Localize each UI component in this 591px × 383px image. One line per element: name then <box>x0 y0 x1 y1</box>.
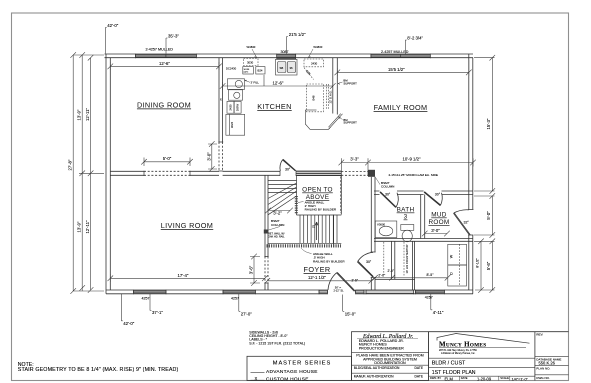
wall kitchen-family <box>333 58 338 115</box>
stair winder diagonals <box>268 183 297 215</box>
cabinet DISW <box>234 101 241 113</box>
svg-text:3'-0": 3'-0" <box>431 228 440 233</box>
cabinet 2430 dashed upper right <box>304 59 324 67</box>
svg-text:PLAN NO.: PLAN NO. <box>536 366 550 370</box>
svg-text:30°: 30° <box>285 167 291 171</box>
muncy homes logo roof <box>437 334 530 344</box>
stairs <box>268 175 341 243</box>
svg-text:12'-6": 12'-6" <box>273 81 284 86</box>
svg-text:7R: 7R <box>313 225 316 228</box>
svg-text:ELM: ELM <box>445 376 454 381</box>
right column rows <box>535 356 569 375</box>
railing angle wall dotted bottom <box>267 244 342 247</box>
stair up arrow <box>315 222 318 240</box>
svg-text:17'-4": 17'-4" <box>178 273 189 278</box>
svg-text:5'-6": 5'-6" <box>486 261 491 270</box>
svg-text:W: W <box>450 254 454 258</box>
svg-text:37'-1": 37'-1" <box>152 310 163 315</box>
svg-text:42'-0": 42'-0" <box>123 321 134 326</box>
wall kitchen-dining <box>219 58 223 142</box>
window 4257 laundry <box>415 290 444 293</box>
door front entry arc <box>328 273 337 290</box>
svg-text:30°: 30° <box>385 192 391 196</box>
dim 3-3 opening <box>339 158 371 171</box>
svg-text:2'-0": 2'-0" <box>378 274 386 278</box>
svg-text:2430: 2430 <box>311 62 318 66</box>
svg-text:LIVING ROOM: LIVING ROOM <box>161 221 214 230</box>
dim 35-3 leader <box>166 38 168 54</box>
laundry doors dashed <box>427 239 447 241</box>
wall oven circle 1 <box>235 80 242 87</box>
divider <box>352 364 429 366</box>
vanity basin <box>379 226 393 236</box>
basement column at middle wall <box>368 170 375 177</box>
svg-text:3030: 3030 <box>247 61 254 65</box>
svg-text:3'-3": 3'-3" <box>350 157 359 162</box>
svg-text:8'-5": 8'-5" <box>427 273 435 277</box>
svg-text:12'-1 1/2": 12'-1 1/2" <box>308 275 327 280</box>
divider logo <box>429 357 535 359</box>
svg-text:DISW: DISW <box>236 103 240 111</box>
advantage house line <box>251 372 265 374</box>
window 2-4257 mulled family <box>371 55 430 58</box>
exterior wall bottom <box>106 290 473 294</box>
cabinet box 2 <box>229 90 243 100</box>
svg-text:2430: 2430 <box>229 104 233 111</box>
svg-text:SB: SB <box>280 66 284 70</box>
svg-text:4257: 4257 <box>425 296 433 300</box>
svg-text:2-12" SL: 2-12" SL <box>334 288 345 292</box>
door mud leaf <box>424 192 441 206</box>
svg-text:3624: 3624 <box>230 121 234 128</box>
sink window sill bar <box>277 58 296 60</box>
svg-text:MUNCY HOMES: MUNCY HOMES <box>439 340 486 348</box>
sidelight left of front door <box>319 290 328 293</box>
dim 3-0 mud <box>422 231 450 237</box>
svg-text:5'-0": 5'-0" <box>163 156 172 161</box>
title block signature box <box>352 332 429 381</box>
wall middle right of door <box>296 171 341 175</box>
window jamb ticks <box>134 54 445 295</box>
peninsula diagonal inner <box>329 127 331 129</box>
svg-text:PRODUCTION ENGINEER: PRODUCTION ENGINEER <box>359 346 404 350</box>
door foyer-corridor leaf <box>357 261 373 277</box>
dim 12-1 foyer line <box>265 278 375 284</box>
svg-text:W4830: W4830 <box>247 45 256 49</box>
svg-text:DWG NO.: DWG NO. <box>536 376 550 380</box>
svg-text:DATE: DATE <box>415 375 424 379</box>
svg-text:12'-11": 12'-11" <box>85 108 90 121</box>
dim 10-9 line <box>369 158 476 166</box>
refrigerator 3624 <box>226 114 245 135</box>
svg-text:DATE: DATE <box>461 376 468 380</box>
opening jamb caps <box>144 142 473 283</box>
stair winder treads <box>268 181 297 193</box>
open-to-above right boundary dashed <box>339 177 341 214</box>
window 4257 living left <box>134 290 167 293</box>
svg-text:32°: 32° <box>464 220 470 224</box>
svg-text:16' LIN COUNTERTOP: 16' LIN COUNTERTOP <box>405 244 409 273</box>
cabinet 2430 tall <box>227 101 234 113</box>
svg-text:12' O.H.G.: 12' O.H.G. <box>329 90 333 103</box>
svg-text:42'-0": 42'-0" <box>107 23 118 28</box>
sink unit outline <box>276 59 298 75</box>
svg-text:FOYER: FOYER <box>304 265 331 274</box>
door rear 32 leaf <box>453 213 470 235</box>
refrigerator inner line <box>229 114 231 135</box>
svg-text:5'-0": 5'-0" <box>486 211 491 220</box>
svg-text:RAILING BY BUILDER: RAILING BY BUILDER <box>313 259 345 263</box>
wall middle 3-3 opening dashed <box>341 172 368 176</box>
basement column dot at ret wall <box>264 230 268 234</box>
svg-text:STAIR GEOMETRY TO BE 8 1/4" (M: STAIR GEOMETRY TO BE 8 1/4" (MAX. RISE) … <box>18 367 179 373</box>
svg-text:30°: 30° <box>366 260 372 264</box>
svg-text:COLUMN: COLUMN <box>271 223 284 227</box>
svg-text:1ST FLOOR PLAN: 1ST FLOOR PLAN <box>432 370 476 376</box>
svg-text:SCALE: SCALE <box>500 376 509 380</box>
svg-text:DC2430: DC2430 <box>226 66 237 70</box>
svg-text:DOCUMENTATION: DOCUMENTATION <box>374 361 406 365</box>
exterior wall right upper <box>469 54 473 210</box>
svg-text:8'-1/2": 8'-1/2" <box>476 257 480 267</box>
svg-text:ADVANTAGE HOUSE: ADVANTAGE HOUSE <box>266 369 318 375</box>
cabinet SB36 base <box>243 67 254 74</box>
svg-text:DWN. BY: DWN. BY <box>430 376 441 380</box>
cabinet B24 base <box>256 67 265 74</box>
svg-text:3: 3 <box>404 214 408 221</box>
island overhang dashed line <box>326 84 328 110</box>
svg-text:550.K.26: 550.K.26 <box>539 360 556 365</box>
custom house line with x <box>251 379 265 381</box>
peninsula top edge <box>305 109 316 111</box>
dim 21-5 leader <box>287 37 289 54</box>
dim 5-0 right line <box>474 193 495 238</box>
svg-text:1-20-09: 1-20-09 <box>477 376 492 381</box>
wall middle 5-0 opening dashed <box>144 171 190 175</box>
dim 3-6 foyer vertical <box>250 254 260 286</box>
svg-text:DATE: DATE <box>415 366 424 370</box>
svg-text:2-4257 MULLED: 2-4257 MULLED <box>381 50 409 54</box>
divider <box>352 351 429 353</box>
wall living-foyer bottom stub <box>265 283 268 290</box>
dim 17-4 bottom line <box>108 274 268 282</box>
svg-text:3' FILL: 3' FILL <box>251 81 260 85</box>
window 4257 living right <box>223 290 255 293</box>
washer dryer inner dashed line <box>459 244 461 286</box>
dryer box <box>448 265 467 286</box>
wall stairwell left / living-foyer <box>265 175 268 256</box>
svg-text:SUPPORT: SUPPORT <box>343 121 357 125</box>
svg-text:4257: 4257 <box>231 296 239 300</box>
wall stairwell right stub <box>334 175 342 247</box>
svg-text:DINING ROOM: DINING ROOM <box>137 101 191 110</box>
svg-text:15'-0": 15'-0" <box>345 312 356 317</box>
door dining-stairs leaf <box>282 159 296 171</box>
svg-text:REV.: REV. <box>536 332 543 336</box>
svg-text:MASTER SERIES: MASTER SERIES <box>273 360 332 366</box>
svg-text:2'-0": 2'-0" <box>388 269 395 273</box>
svg-text:SUPPORT: SUPPORT <box>343 81 357 85</box>
svg-text:OAK HD. RAIL: OAK HD. RAIL <box>268 235 285 238</box>
dim 42-0 top leader <box>105 28 107 54</box>
stair run treads <box>300 215 337 243</box>
door dining-stairs arc <box>280 160 283 172</box>
svg-text:35'-3": 35'-3" <box>168 34 179 39</box>
svg-text:A Division of Muncy Homes, Inc: A Division of Muncy Homes, Inc. <box>441 352 476 355</box>
kitchen fixtures <box>226 58 343 136</box>
wall bath left / foyer right <box>371 177 375 290</box>
svg-text:21'5 1/2": 21'5 1/2" <box>289 32 306 37</box>
door mud arc <box>440 193 442 206</box>
peninsula outline <box>305 110 342 129</box>
svg-text:S.F. - 1215 1ST FLR. (2312 TOT: S.F. - 1215 1ST FLR. (2312 TOTAL) <box>249 341 305 345</box>
corridor counter dashed lines <box>384 242 404 276</box>
svg-text:COLUMN: COLUMN <box>381 185 394 189</box>
dim extension at middle wall left <box>79 172 104 174</box>
wall kitchen-dining cased opening dashed <box>219 142 223 171</box>
door rear 32 arc <box>454 210 469 213</box>
dim 8-2 leader <box>405 40 407 55</box>
dim 3-0 kitchen opening vertical <box>208 141 217 172</box>
svg-text:3087: 3087 <box>281 50 289 54</box>
railing angle wall dotted vertical <box>295 196 298 214</box>
leader 15-0 <box>343 295 345 312</box>
svg-text:MANUF. AUTHORIZATION: MANUF. AUTHORIZATION <box>354 375 394 379</box>
svg-text:MUD: MUD <box>431 212 447 219</box>
svg-text:D: D <box>450 272 454 275</box>
svg-text:(42"): (42") <box>244 71 249 73</box>
leader 27-0 <box>239 294 241 311</box>
svg-text:12'-6": 12'-6" <box>159 61 170 66</box>
svg-text:27'-8": 27'-8" <box>68 159 73 170</box>
dim 12-11 lower line <box>88 173 94 292</box>
title block center borders <box>429 332 569 381</box>
svg-text:3'-0": 3'-0" <box>207 152 212 161</box>
svg-text:12'-11": 12'-11" <box>85 220 90 233</box>
svg-text:BATH: BATH <box>397 207 415 214</box>
wall bath-mud top: segments <box>374 191 473 195</box>
dim dining 12-6 line <box>108 62 222 70</box>
svg-text:4'-11": 4'-11" <box>433 310 444 315</box>
island B48 dashed <box>307 84 324 112</box>
svg-text:13'-9": 13'-9" <box>77 109 82 120</box>
window 3087 kitchen <box>277 55 296 58</box>
bath fixtures <box>375 221 466 286</box>
svg-text:1/4"=1'-0": 1/4"=1'-0" <box>512 377 529 381</box>
svg-text:3'-6": 3'-6" <box>248 265 253 274</box>
wall middle dining-living solid left <box>110 171 144 175</box>
dim 13-9 upper line <box>79 52 85 176</box>
svg-text:ROOM: ROOM <box>428 219 449 226</box>
sidelight right of front door <box>356 290 365 293</box>
svg-text:FAMILY ROOM: FAMILY ROOM <box>374 103 428 112</box>
cabinet DC2430 corner box <box>228 79 245 90</box>
dim kitchen 12-6 line <box>220 82 336 90</box>
svg-text:BLDR / CUST: BLDR / CUST <box>432 361 466 367</box>
dim 8-0 right inner line <box>478 239 484 293</box>
wall bath-mud divider <box>421 195 425 239</box>
dim 13-9 lower line <box>79 173 85 291</box>
dim 5-6 right line <box>474 239 495 293</box>
dimension lines <box>70 28 495 321</box>
svg-text:W4830: W4830 <box>313 45 322 49</box>
door foyer-corridor arc <box>358 252 373 261</box>
dim 5-0 dining opening <box>141 158 193 167</box>
svg-text:2-4257 MULLED: 2-4257 MULLED <box>146 48 174 52</box>
wall corridor closet <box>392 241 415 290</box>
toilet bowl <box>402 230 412 242</box>
wall middle solid mid <box>190 171 280 175</box>
svg-text:BLDG/SEAL AUTHORIZATION: BLDG/SEAL AUTHORIZATION <box>354 366 400 370</box>
corridor counter line <box>375 279 415 281</box>
dim 15-3 right line <box>474 55 495 194</box>
svg-text:15'5 1/2": 15'5 1/2" <box>388 67 405 72</box>
svg-text:KITCHEN: KITCHEN <box>257 102 291 111</box>
cabinet 3030 dashed upper <box>244 59 259 66</box>
svg-text:10'-9 1/2": 10'-9 1/2" <box>402 157 421 162</box>
svg-text:B24: B24 <box>258 69 263 73</box>
cabinet corner B36 dashed diagonal <box>304 68 314 80</box>
stair winder right edge <box>296 175 298 215</box>
door bath arc <box>396 193 398 208</box>
stair run rails <box>268 215 341 243</box>
leader 4-11 <box>431 294 433 310</box>
wall band below corridor <box>366 290 414 293</box>
svg-text:B48: B48 <box>312 95 316 100</box>
dim 12-11 upper line <box>88 55 94 176</box>
exterior wall top <box>105 54 474 58</box>
vanity V3600 <box>375 221 397 238</box>
wall laundry top / bath bottom <box>374 239 473 242</box>
sink bowl left <box>278 62 286 73</box>
svg-text:2-15'x11.25" MICRO-LAM EA. SID: 2-15'x11.25" MICRO-LAM EA. SIDE <box>389 173 438 177</box>
toilet tank <box>401 225 414 231</box>
svg-text:8'-2 3/4": 8'-2 3/4" <box>407 36 423 41</box>
svg-text:4257: 4257 <box>142 296 150 300</box>
exterior wall left <box>106 54 110 294</box>
sink bowl right <box>287 62 295 73</box>
window 2-4257 mulled dining <box>135 55 196 58</box>
counter front edge kitchen top run <box>263 75 265 86</box>
dim 27-8 left line <box>70 52 104 294</box>
dim 3-2 winder <box>265 208 293 214</box>
door bath leaf <box>380 192 396 208</box>
svg-text:3'-2": 3'-2" <box>273 210 282 215</box>
wall oven circle 2 <box>234 92 240 98</box>
leader 42-0 bottom <box>121 294 123 321</box>
master series box <box>247 356 352 380</box>
divider <box>352 372 429 374</box>
svg-text:13'-9": 13'-9" <box>77 221 82 232</box>
svg-text:36: 36 <box>290 66 294 70</box>
svg-text:RAILING BY BUILDER: RAILING BY BUILDER <box>305 208 337 212</box>
svg-text:CUSTOM HOUSE: CUSTOM HOUSE <box>266 376 309 382</box>
svg-text:2'-6": 2'-6" <box>352 279 359 283</box>
svg-text:15'-3": 15'-3" <box>486 118 491 129</box>
door front entry leaf <box>337 272 356 291</box>
wall living-foyer dashed opening <box>265 257 268 284</box>
leader 37-1 <box>150 294 152 311</box>
svg-text:27'-0": 27'-0" <box>241 312 252 317</box>
washer box <box>448 244 467 265</box>
svg-text:V3600: V3600 <box>377 223 386 227</box>
svg-text:30°: 30° <box>435 192 441 196</box>
svg-text:X: X <box>255 376 258 381</box>
exterior wall right lower <box>469 235 473 294</box>
dim 2-0 and 8-5 corridor <box>372 275 450 281</box>
svg-text:OPEN TO: OPEN TO <box>302 187 333 194</box>
dim family 15-5 line <box>335 60 472 76</box>
